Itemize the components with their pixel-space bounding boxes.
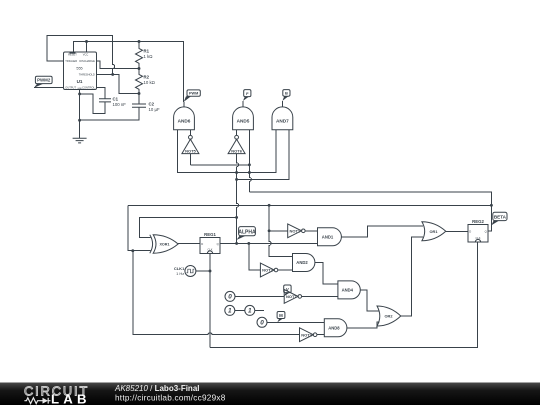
- wire AND6 left input to AND7 left input (H2): [178, 130, 276, 173]
- node C2 return junction: [78, 119, 81, 122]
- clock CLK1: [174, 266, 196, 277]
- svg-text:D: D: [469, 229, 471, 233]
- wire VCC rail to PWM node: [74, 42, 184, 102]
- node ALPHA flag: [237, 227, 256, 240]
- svg-text:http://circuitlab.com/cc929x8: http://circuitlab.com/cc929x8: [115, 394, 226, 403]
- node BETA flag: [491, 212, 507, 225]
- and-gate AND2: [293, 254, 315, 272]
- flip-flop REG2: [468, 219, 488, 242]
- wire discharge to R1/R2 junction: [96, 61, 139, 69]
- and-gate AND4: [338, 281, 360, 299]
- wire NOT6 net to AND7 right input (H3): [237, 130, 289, 180]
- xor-gate XOR1: [150, 235, 178, 253]
- svg-text:OR2: OR2: [385, 314, 394, 319]
- svg-text:C1: C1: [113, 96, 119, 101]
- node NOT1 input junction: [268, 229, 271, 232]
- node net D to net C vertical: [490, 204, 493, 207]
- and-gate AND8: [324, 319, 347, 337]
- wire OR1 output to REG2 D: [446, 230, 468, 232]
- svg-text:BETA: BETA: [494, 214, 507, 219]
- capacitor C2: [80, 94, 160, 121]
- wire AND2 output to AND4 top input: [315, 263, 338, 284]
- svg-text:XOR1: XOR1: [159, 243, 169, 247]
- wire NOT3 long input from BETA net: [133, 251, 300, 335]
- wire VCC pin stub: [86, 42, 88, 53]
- and-gate AND1: [318, 228, 342, 246]
- svg-text:AND4: AND4: [342, 288, 354, 293]
- node B flag: [282, 90, 290, 101]
- svg-text:1 kΩ: 1 kΩ: [144, 54, 154, 59]
- svg-text:REG1: REG1: [204, 232, 216, 237]
- SECTION: footer: [0, 383, 540, 405]
- not-gate NOT3: [300, 328, 317, 342]
- wire REG1 Q output (ALPHA) to AND1 bottom input: [220, 242, 318, 244]
- svg-text:Q: Q: [217, 242, 219, 246]
- wire NOT3 output to AND8: [317, 334, 324, 336]
- node NOT2 branch on Q wire: [247, 242, 250, 245]
- node clock junction: [209, 270, 212, 273]
- node PWM2 flag: [34, 76, 52, 88]
- wire NOT5 input down: [189, 154, 191, 165]
- svg-text:VCC: VCC: [83, 52, 89, 56]
- svg-text:100 nF: 100 nF: [113, 102, 127, 107]
- not-gate NOT5: [182, 135, 199, 153]
- wire AND5 output stub: [242, 101, 244, 107]
- wire net C to REG2 Q: [249, 192, 491, 231]
- resistor R2: [136, 69, 156, 94]
- svg-text:1: 1: [248, 308, 252, 315]
- svg-text:DISCHARGE: DISCHARGE: [79, 59, 95, 63]
- IC U1 555 timer: [64, 52, 97, 90]
- svg-text:C2: C2: [149, 101, 155, 106]
- node ALPHA net on REG1 Q wire: [235, 242, 238, 245]
- svg-text:OUTPUT: OUTPUT: [65, 86, 76, 90]
- svg-text:AND6: AND6: [178, 119, 191, 124]
- node VCC rail junction: [85, 40, 88, 43]
- svg-text:0: 0: [260, 320, 264, 327]
- wire NOT1 input: [269, 230, 288, 232]
- node net D to NOT1 branch: [268, 204, 271, 207]
- capacitor C1: [80, 87, 127, 113]
- svg-text:AND5: AND5: [237, 119, 250, 124]
- node C1 return junction: [78, 92, 81, 95]
- flip-flop REG1: [200, 232, 220, 254]
- wire stub from constant 1: [255, 309, 264, 311]
- node trigger-threshold junction: [111, 73, 114, 76]
- resistor R1: [136, 42, 154, 69]
- wire trigger loop: [47, 36, 115, 75]
- svg-text:TRIGGER: TRIGGER: [65, 59, 77, 63]
- wire AND7 output stub: [281, 101, 283, 107]
- node R1/R2 junction: [138, 67, 141, 70]
- svg-text:AND2: AND2: [296, 260, 308, 265]
- wire clock rail to REG2 clk: [210, 242, 477, 348]
- svg-text:NOT6: NOT6: [231, 149, 242, 154]
- wire NOT5 input to AND5 right input (H1): [190, 164, 249, 166]
- wire AND8 output to OR2 bottom input: [347, 322, 380, 328]
- svg-text:ALPHA: ALPHA: [238, 229, 256, 235]
- svg-text:LAB: LAB: [51, 391, 91, 405]
- svg-text:AK85210 / Labo3-Final: AK85210 / Labo3-Final: [114, 384, 199, 393]
- node M flag: [277, 312, 285, 323]
- node XOR feedback junction: [235, 216, 238, 219]
- svg-text:R2: R2: [144, 75, 150, 80]
- wire OR1 bottom input from OR2 output: [401, 237, 423, 316]
- or-gate OR1: [422, 222, 446, 241]
- node H2 on AND5 right net: [248, 171, 251, 174]
- wire XOR feedback (ALPHA) to XOR top input: [140, 217, 237, 237]
- svg-text:U1: U1: [77, 79, 83, 84]
- and-gate AND5: [233, 107, 254, 130]
- svg-text:AND7: AND7: [276, 119, 289, 124]
- svg-text:1: 1: [228, 308, 232, 315]
- svg-text:B: B: [285, 91, 288, 96]
- node R2 bottom junction: [138, 92, 141, 95]
- wire net D branch down to NOT1 and AND2 (hops Q wire): [269, 205, 292, 256]
- wire net D (BETA feedback rail): [128, 204, 492, 206]
- wire AND4 output to OR2 top input: [360, 290, 379, 311]
- node NOT6 net on H2: [235, 171, 238, 174]
- not-gate NOT7: [284, 290, 301, 304]
- wire OUTPUT to PWM2 flag: [34, 87, 64, 89]
- SECTION: top gates: [174, 90, 492, 245]
- node F flag: [243, 90, 251, 101]
- wire NOT6 input down to ALPHA net (hops H1 and net D): [237, 154, 239, 244]
- logic-constant 1 (left): [225, 305, 235, 315]
- svg-text:CONTROL: CONTROL: [82, 86, 95, 90]
- logic-constant 0 (bottom): [257, 317, 267, 327]
- svg-text:THRESHOLD: THRESHOLD: [79, 73, 95, 77]
- svg-text:NOT3: NOT3: [301, 332, 312, 337]
- svg-text:M: M: [279, 313, 283, 318]
- wire NOT1 output to AND1: [305, 230, 317, 232]
- wire ALPHA to NOT2 input: [249, 243, 261, 270]
- and-gate AND6: [174, 107, 195, 130]
- and-gate AND7: [272, 107, 293, 130]
- svg-text:10 kΩ: 10 kΩ: [144, 80, 156, 85]
- svg-text:10 µF: 10 µF: [149, 107, 160, 112]
- wire threshold to R2 bottom: [96, 74, 139, 93]
- SECTION: 555 timer astable: [34, 36, 183, 143]
- node R1 top junction: [138, 40, 141, 43]
- svg-text:NOT2: NOT2: [262, 268, 273, 273]
- wire NOT2 output to AND2: [278, 269, 293, 271]
- wire AND6 output stub: [183, 102, 185, 107]
- wire REG1 clk down to clock rail: [209, 254, 211, 348]
- svg-text:D: D: [201, 242, 203, 246]
- svg-text:1 Hz: 1 Hz: [176, 271, 184, 276]
- not-gate NOT6: [228, 135, 245, 153]
- not-gate NOT1: [288, 224, 305, 238]
- svg-text:PWM: PWM: [189, 92, 198, 96]
- ground: [73, 138, 87, 143]
- svg-text:NOT1: NOT1: [289, 228, 300, 233]
- svg-text:OR1: OR1: [430, 229, 439, 234]
- wire GND pin down: [79, 89, 81, 138]
- svg-text:AND1: AND1: [322, 235, 334, 240]
- or-gate OR2: [377, 306, 401, 326]
- wire AND1 output to OR1 top input: [341, 226, 423, 237]
- wire constant 0 to AND8 top input: [267, 321, 324, 323]
- svg-text:R1: R1: [144, 49, 150, 54]
- wire net D down to XOR bottom input: [128, 205, 151, 250]
- svg-text:NOT7: NOT7: [286, 294, 297, 299]
- wire constant 0 to NOT7 input: [235, 295, 284, 297]
- wire AND5 right input down (hops H3) to net C: [249, 130, 251, 192]
- wire between constants 1: [235, 309, 245, 311]
- not-gate NOT2: [260, 263, 277, 277]
- svg-text:0: 0: [228, 294, 232, 301]
- node H1 end junction: [248, 163, 251, 166]
- svg-text:PWM2: PWM2: [37, 78, 51, 83]
- wire CLK1 to REG1 clk vertical: [196, 270, 210, 272]
- svg-text:555: 555: [76, 67, 82, 71]
- logic-constant 0 (top): [225, 291, 235, 301]
- wire XOR1 output to REG1 D: [178, 242, 200, 244]
- node NOT3 branch junction: [131, 249, 134, 252]
- node H3 start: [235, 178, 238, 181]
- svg-text:Q: Q: [485, 229, 487, 233]
- logic-constant 1 (right): [245, 305, 255, 315]
- wire AND5 left input to NOT6: [236, 130, 238, 136]
- svg-text:REG2: REG2: [472, 219, 484, 224]
- svg-text:AND8: AND8: [328, 326, 340, 331]
- node PWM flag: [184, 90, 201, 102]
- svg-text:NOT5: NOT5: [185, 149, 196, 154]
- wire AND6 right input to NOT5: [189, 130, 191, 136]
- SECTION: lower logic: [133, 243, 401, 341]
- node V flag: [284, 285, 291, 296]
- wire NOT7 output to AND4 bottom input: [302, 295, 338, 297]
- SECTION: middle logic: [128, 204, 507, 348]
